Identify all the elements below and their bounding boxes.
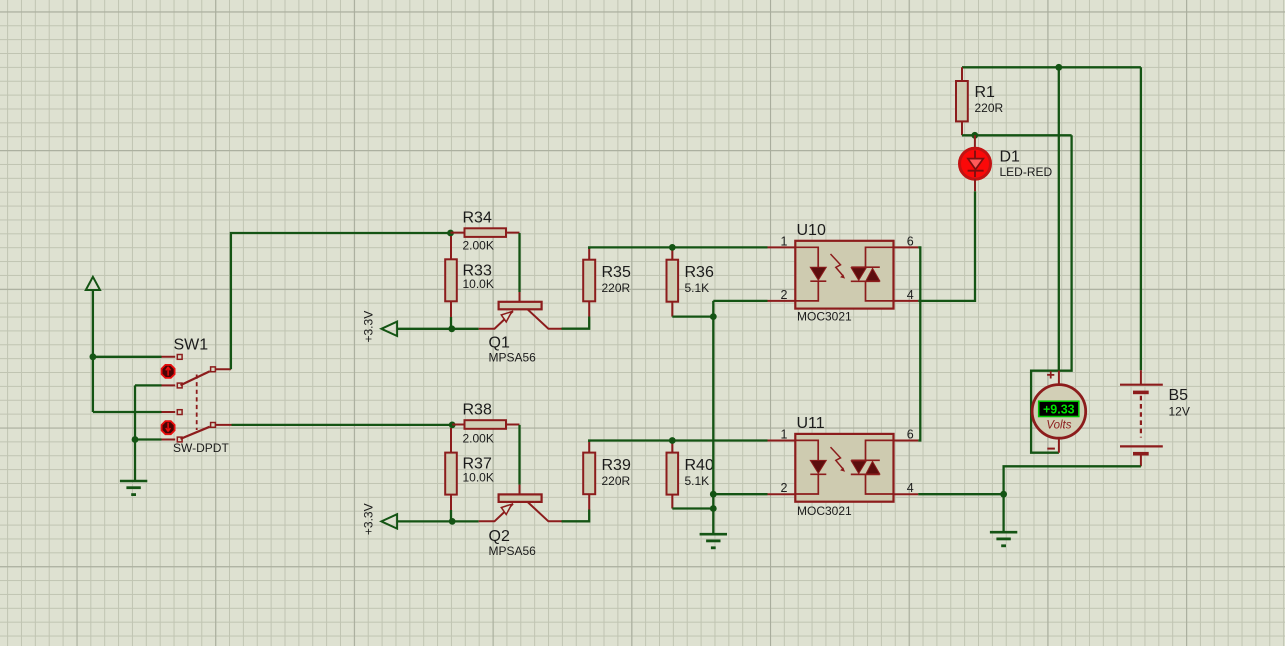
- wire U10 pin4 to D1 cathode: [918, 191, 975, 301]
- svg-text:MOC3021: MOC3021: [797, 504, 852, 518]
- ground under SW1: [120, 481, 147, 495]
- wire U11 pin2 net: [713, 493, 767, 495]
- wire battery negative to ground branch: [1004, 466, 1141, 532]
- switch SW1 lever pole 2: [181, 427, 210, 439]
- resistor R35 leads: [588, 249, 590, 317]
- label Q1: [489, 335, 510, 352]
- resistor R39 leads: [588, 442, 590, 510]
- pin lead U10 pin2: [768, 300, 796, 302]
- label MPSA56 Q1: [489, 351, 537, 365]
- node junction at x135 y439.5: [132, 436, 139, 443]
- wire top rail to voltmeter plus: [1058, 67, 1060, 370]
- resistor R33 bottom lead: [450, 301, 452, 317]
- svg-text:5.1K: 5.1K: [685, 281, 710, 295]
- switch SW1 pin pads: [177, 355, 215, 442]
- svg-text:R34: R34: [463, 210, 492, 227]
- svg-text:R40: R40: [685, 457, 714, 474]
- node junction at (1003.6,494.2): [1000, 491, 1007, 498]
- svg-text:220R: 220R: [602, 281, 631, 295]
- wire mid vertical net U10 pin2 to ground: [712, 301, 714, 534]
- svg-text:R36: R36: [685, 264, 714, 281]
- wire Q2 collector to R39 bottom: [562, 510, 590, 522]
- voltmeter plus lead: [1058, 371, 1060, 385]
- wire row1 net R35 top to U10 pin1: [589, 247, 767, 249]
- svg-text:SW1: SW1: [174, 337, 209, 354]
- node junction at x92.9 y356.8: [90, 353, 97, 360]
- label 2.00K: [463, 239, 494, 253]
- op-amp U11 optocoupler MOC3021: [795, 434, 893, 502]
- svg-text:R35: R35: [602, 264, 631, 281]
- wire U10 pin2 net: [713, 300, 767, 302]
- label U11: [797, 415, 825, 432]
- label B5: [1169, 387, 1189, 404]
- wire U10 pin6 down to U11 pin6: [918, 247, 920, 440]
- svg-text:4: 4: [907, 481, 914, 495]
- label R33: [463, 262, 492, 279]
- wire SW1 common rail to ground: [135, 385, 162, 481]
- label 10.0K: [463, 277, 494, 291]
- node junction at (1058.8,67.3): [1055, 64, 1062, 71]
- ground mid bottom: [700, 534, 727, 548]
- resistor R37 bottom lead: [450, 495, 452, 510]
- resistor R36: [667, 260, 679, 302]
- resistor R36 top lead: [671, 247, 673, 259]
- svg-text:4: 4: [907, 288, 914, 302]
- svg-text:6: 6: [907, 234, 914, 248]
- resistor R34: [465, 228, 507, 237]
- svg-text:10.0K: 10.0K: [463, 471, 494, 485]
- wire R38 to Q2 base: [518, 425, 520, 495]
- svg-text:220R: 220R: [975, 101, 1004, 115]
- resistor R1 leads: [961, 67, 963, 135]
- node junction at (974.8,135.3): [971, 132, 978, 139]
- label MOC3021 U11: [797, 504, 852, 518]
- node junction at (713.3,508.5): [710, 505, 717, 512]
- power terminal +3.3V arrow row1: [381, 322, 397, 336]
- node junction at (452.2,521.4): [449, 518, 456, 525]
- voltmeter plus mark: [1047, 371, 1054, 378]
- svg-text:Volts: Volts: [1046, 420, 1071, 432]
- wire from power arrow down to SW1 pole rows: [93, 290, 162, 412]
- pin lead U11 pin4: [894, 493, 919, 495]
- label MOC3021 U10: [797, 310, 852, 324]
- svg-text:SW-DPDT: SW-DPDT: [173, 441, 229, 455]
- label R34: [463, 210, 492, 227]
- svg-text:1: 1: [781, 234, 788, 248]
- pin number 1 U10: [781, 234, 788, 248]
- label R37: [463, 456, 492, 473]
- label R39: [602, 457, 631, 474]
- transistor Q1 base bar: [499, 302, 542, 310]
- label SW1: [174, 337, 209, 354]
- svg-text:MPSA56: MPSA56: [489, 544, 537, 558]
- wire SW1 pole2 to R38 node: [232, 424, 450, 426]
- op-amp U10 optocoupler MOC3021: [795, 241, 893, 309]
- voltmeter display: [1039, 401, 1079, 416]
- svg-text:R39: R39: [602, 457, 631, 474]
- svg-text:B5: B5: [1169, 387, 1189, 404]
- voltmeter minus mark: [1047, 448, 1055, 450]
- wire R1 bottom row to voltmeter branch: [962, 134, 1072, 136]
- svg-text:U10: U10: [797, 222, 826, 239]
- label 5.1K R36: [685, 281, 710, 295]
- wire row2 net R39 top to U11 pin1: [589, 441, 767, 443]
- wire U11 pin4 to battery negative node: [918, 493, 1003, 495]
- resistor R37: [445, 453, 457, 495]
- svg-text:Q1: Q1: [489, 335, 510, 352]
- label Q2: [489, 528, 510, 545]
- svg-text:MOC3021: MOC3021: [797, 310, 852, 324]
- label SW-DPDT: [173, 441, 229, 455]
- label R40: [685, 457, 714, 474]
- svg-text:D1: D1: [1000, 149, 1021, 166]
- resistor R1: [956, 81, 968, 121]
- transistor Q1 emitter lead with arrow: [479, 311, 513, 329]
- resistor R35: [583, 260, 595, 302]
- resistor R40 bottom lead: [671, 495, 673, 509]
- label 10.0K R37: [463, 471, 494, 485]
- power terminal +3.3V arrow row2: [381, 514, 397, 528]
- label D1: [1000, 149, 1021, 166]
- pin number 4 U10: [907, 288, 914, 302]
- svg-text:220R: 220R: [602, 474, 631, 488]
- wire Q1 collector to R35 bottom: [562, 317, 590, 329]
- label Volts: [1046, 420, 1071, 432]
- svg-text:12V: 12V: [1169, 405, 1190, 419]
- wire R33 bottom to +3.3V row: [450, 317, 452, 329]
- resistor R36 bottom lead: [671, 302, 673, 317]
- label R1: [975, 84, 996, 101]
- svg-text:Q2: Q2: [489, 528, 510, 545]
- svg-text:5.1K: 5.1K: [685, 474, 710, 488]
- wire SW1 pole1 up to R34 node row: [231, 233, 448, 369]
- wire R37 bottom to +3.3V row2: [450, 510, 452, 521]
- svg-text:2: 2: [781, 481, 788, 495]
- resistor R34 leads: [451, 233, 520, 260]
- svg-text:6: 6: [907, 427, 914, 441]
- svg-text:U11: U11: [797, 415, 825, 432]
- svg-text:2.00K: 2.00K: [463, 432, 494, 446]
- label 12V: [1169, 405, 1190, 419]
- label R36: [685, 264, 714, 281]
- label 220R R1: [975, 101, 1004, 115]
- pin number 6 U11: [907, 427, 914, 441]
- transistor Q2 emitter lead with arrow: [479, 504, 513, 522]
- pin number 1 U11: [781, 427, 788, 441]
- switch SW1 pin stubs (maroon): [162, 357, 232, 440]
- svg-text:+9.33: +9.33: [1043, 403, 1075, 417]
- wire +3.3V row1 to Q1 emitter: [397, 328, 479, 330]
- pin lead U11 pin1: [768, 440, 796, 442]
- resistor R38 leads: [451, 425, 520, 453]
- wire bracket to voltmeter minus: [1031, 135, 1072, 452]
- pin number 4 U11: [907, 481, 914, 495]
- svg-text:2.00K: 2.00K: [463, 239, 494, 253]
- wire +3.3V row2 to Q2 emitter: [397, 520, 479, 522]
- resistor R39: [583, 453, 595, 495]
- svg-text:2: 2: [781, 288, 788, 302]
- svg-text:MPSA56: MPSA56: [489, 351, 537, 365]
- pin number 2 U10: [781, 288, 788, 302]
- label +3.3V row1: [362, 311, 376, 343]
- node junction R38/R37 at (452.2,424.9): [449, 422, 456, 429]
- label R35: [602, 264, 631, 281]
- transistor Q1 collector lead: [528, 309, 562, 328]
- pin lead U10 pin1: [768, 246, 796, 248]
- wire R36 bottom to mid vertical net: [672, 315, 713, 317]
- svg-text:1: 1: [781, 427, 788, 441]
- label 220R R39: [602, 474, 631, 488]
- node junction R34/R33 at (450.5,233): [447, 230, 454, 237]
- resistor R33: [445, 259, 457, 301]
- svg-text:+3.3V: +3.3V: [362, 503, 376, 535]
- label 2.00K R38: [463, 432, 494, 446]
- resistor R38: [465, 420, 507, 429]
- pin number 2 U11: [781, 481, 788, 495]
- svg-text:R1: R1: [975, 84, 996, 101]
- svg-text:LED-RED: LED-RED: [1000, 165, 1053, 179]
- svg-text:R38: R38: [463, 402, 492, 419]
- ground bottom right: [990, 532, 1017, 546]
- svg-text:+3.3V: +3.3V: [362, 311, 376, 343]
- node junction at (713.3,316.6): [710, 313, 717, 320]
- switch SW1 actuator button up: [162, 365, 175, 378]
- node junction at (672.3,440.5): [669, 437, 676, 444]
- diode D1 LED-RED: [960, 135, 991, 191]
- wire top rail: [962, 66, 1141, 68]
- power terminal +3.3V arrow top-left: [86, 277, 100, 290]
- voltmeter body: [1032, 385, 1086, 439]
- resistor R40: [667, 453, 679, 495]
- voltmeter minus lead: [1058, 438, 1060, 452]
- label 5.1K R40: [685, 474, 710, 488]
- battery B5: [1120, 370, 1163, 466]
- svg-text:10.0K: 10.0K: [463, 277, 494, 291]
- label 220R R35: [602, 281, 631, 295]
- pin number 6 U10: [907, 234, 914, 248]
- pin lead U11 pin2: [768, 493, 796, 495]
- label LED-RED: [1000, 165, 1053, 179]
- resistor R40 top lead: [671, 441, 673, 453]
- node junction at (713.3,494.2): [710, 491, 717, 498]
- switch SW1 actuator button down: [162, 421, 175, 434]
- transistor Q2 base bar: [499, 494, 542, 502]
- node junction at (451.8,328.8): [448, 325, 455, 332]
- label +3.3V row2: [362, 503, 376, 535]
- wire R40 bottom to mid vertical net: [672, 507, 713, 509]
- transistor Q2 collector lead: [528, 502, 562, 521]
- node junction at (672.3,247.4): [669, 244, 676, 251]
- label U10: [797, 222, 826, 239]
- label R38: [463, 402, 492, 419]
- switch SW1 lever pole 1: [181, 371, 210, 385]
- pin lead U11 pin6: [894, 440, 919, 442]
- wire top rail to battery: [1140, 67, 1142, 370]
- pin lead U10 pin6: [894, 246, 919, 248]
- pin lead U10 pin4: [894, 300, 919, 302]
- label MPSA56 Q2: [489, 544, 537, 558]
- switch SW1 gang dashed link: [196, 375, 198, 431]
- wire R34 to Q1 base: [518, 233, 520, 302]
